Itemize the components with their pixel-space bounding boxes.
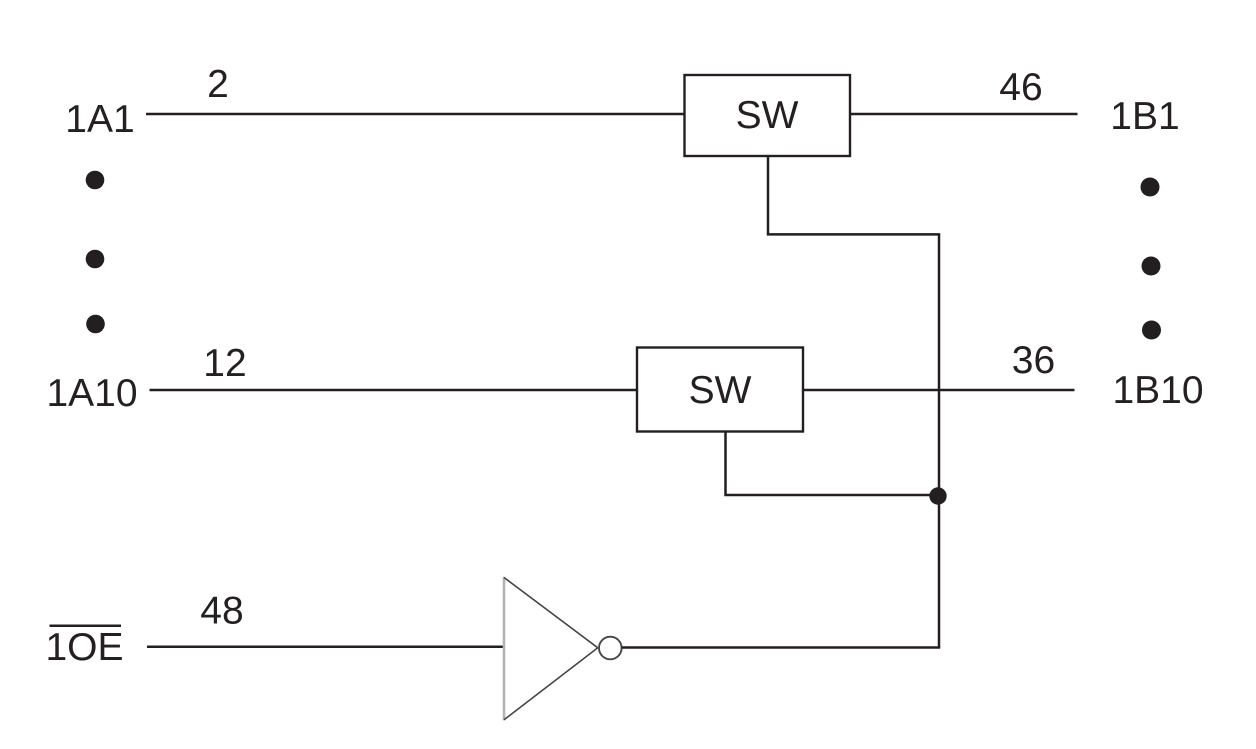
ellipsis dot B-side 3 [1142, 321, 1161, 340]
junction dot [929, 487, 946, 504]
label 1OE (active low, overline) [45, 626, 123, 669]
wire SW2 to 1B10 (pin 36 net) [803, 389, 1075, 392]
ellipsis dot A-side 3 [86, 315, 105, 334]
svg-text:36: 36 [1012, 339, 1055, 382]
svg-text:1B10: 1B10 [1112, 369, 1203, 412]
wire SW1 control (box bottom to trunk) [768, 156, 940, 234]
svg-text:1A10: 1A10 [46, 372, 137, 415]
wire 1OE to inverter [147, 646, 504, 649]
ellipsis dot B-side 1 [1141, 178, 1160, 197]
svg-text:12: 12 [203, 342, 246, 385]
ellipsis dot A-side 1 [86, 171, 105, 190]
svg-text:1A1: 1A1 [65, 98, 134, 141]
svg-text:1OE: 1OE [45, 626, 123, 669]
switch SW1 [685, 75, 851, 156]
svg-text:SW: SW [689, 369, 752, 412]
ellipsis dot A-side 2 [86, 250, 105, 269]
wire 1A1 to SW1 [146, 113, 686, 116]
wire SW2 control (box bottom to trunk) [726, 432, 940, 496]
switch SW2 [637, 348, 803, 432]
svg-text:46: 46 [999, 66, 1042, 109]
wire control trunk (vertical) [938, 234, 941, 647]
svg-text:SW: SW [736, 94, 799, 137]
svg-text:48: 48 [200, 590, 243, 633]
wire 1A10 to SW2 [150, 389, 640, 392]
wire inverter output to trunk [622, 646, 941, 649]
inverter U1 [504, 577, 622, 721]
wire SW1 to 1B1 (pin 46 net) [850, 113, 1078, 116]
svg-text:1B1: 1B1 [1110, 95, 1179, 138]
svg-text:2: 2 [207, 63, 229, 106]
ellipsis dot B-side 2 [1142, 257, 1161, 276]
